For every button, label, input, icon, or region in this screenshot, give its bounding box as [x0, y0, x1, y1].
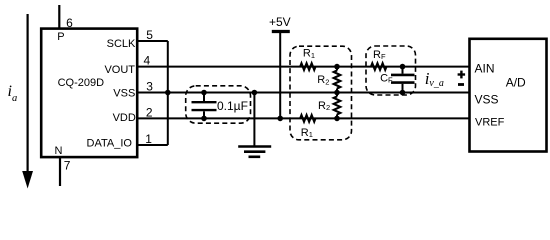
svg-text:VDD: VDD — [113, 112, 136, 124]
decoupling capacitor dashed box — [186, 86, 251, 123]
wire DATA_IO (pin 1) — [137, 144, 168, 146]
junction CF bottom at VSS line — [400, 90, 406, 96]
capacitor CF — [380, 67, 414, 93]
primary current arrow i_a — [22, 14, 33, 189]
Hall sensor CQ-209D box — [41, 29, 137, 158]
ground — [238, 93, 271, 157]
RC filter dashed box — [366, 46, 416, 95]
resistor R1 (bottom, in VDD line) — [300, 115, 315, 139]
junction cap bottom at VDD — [201, 116, 207, 122]
svg-text:SCLK: SCLK — [107, 38, 136, 50]
wire SCLK (pin 5) — [137, 40, 168, 42]
svg-text:7: 7 — [64, 158, 71, 172]
svg-text:N: N — [55, 145, 63, 157]
svg-text:+5V: +5V — [269, 15, 291, 29]
capacitor 0.1uF — [192, 93, 217, 119]
junction CF top at AIN line — [400, 64, 406, 70]
svg-text:5: 5 — [146, 28, 153, 42]
svg-text:1: 1 — [145, 132, 152, 146]
resistor R1 (top, in VOUT line) — [300, 48, 315, 70]
wire VDD (pin 2) to A/D VREF — [137, 117, 470, 119]
resistor network dashed box — [290, 46, 352, 140]
junction R2 mid at VSS — [334, 90, 340, 96]
polarity - — [458, 83, 464, 86]
junction R2 top at VOUT — [334, 64, 340, 70]
wire VOUT (pin 4) to A/D AIN — [137, 66, 470, 68]
svg-text:VOUT: VOUT — [104, 64, 135, 76]
wire pin 7 (N terminal) — [59, 157, 61, 186]
svg-text:DATA_IO: DATA_IO — [87, 138, 133, 150]
wire VSS (pin 3) to A/D VSS — [137, 92, 470, 94]
resistor R2 (upper, VOUT to VSS) — [317, 67, 340, 93]
svg-text:4: 4 — [144, 53, 151, 67]
junction R2 bottom at VDD — [334, 116, 340, 122]
svg-text:2: 2 — [146, 105, 153, 119]
resistor RF — [371, 49, 386, 70]
resistor R2 (lower, VSS to VDD) — [318, 93, 340, 119]
junction +5V at VDD — [277, 116, 283, 122]
svg-text:0.1µF: 0.1µF — [217, 99, 248, 113]
polarity + — [458, 71, 466, 79]
wire pin 6 (P terminal) — [58, 5, 60, 29]
svg-text:CQ-209D: CQ-209D — [58, 77, 105, 89]
svg-text:VSS: VSS — [113, 87, 135, 99]
+5V supply symbol — [272, 32, 290, 119]
junction SCLK tie at VSS — [165, 90, 171, 96]
svg-text:3: 3 — [146, 79, 153, 93]
svg-text:P: P — [57, 31, 64, 43]
svg-text:A/D: A/D — [506, 76, 526, 90]
A/D converter box — [470, 39, 547, 152]
svg-text:VSS: VSS — [475, 92, 499, 106]
svg-text:VREF: VREF — [475, 117, 505, 129]
wire SCLK/DATA_IO tie-down vertical — [167, 41, 169, 145]
junction ground at VSS — [252, 90, 258, 96]
junction cap top at VSS — [201, 90, 207, 96]
svg-text:AIN: AIN — [475, 62, 495, 76]
